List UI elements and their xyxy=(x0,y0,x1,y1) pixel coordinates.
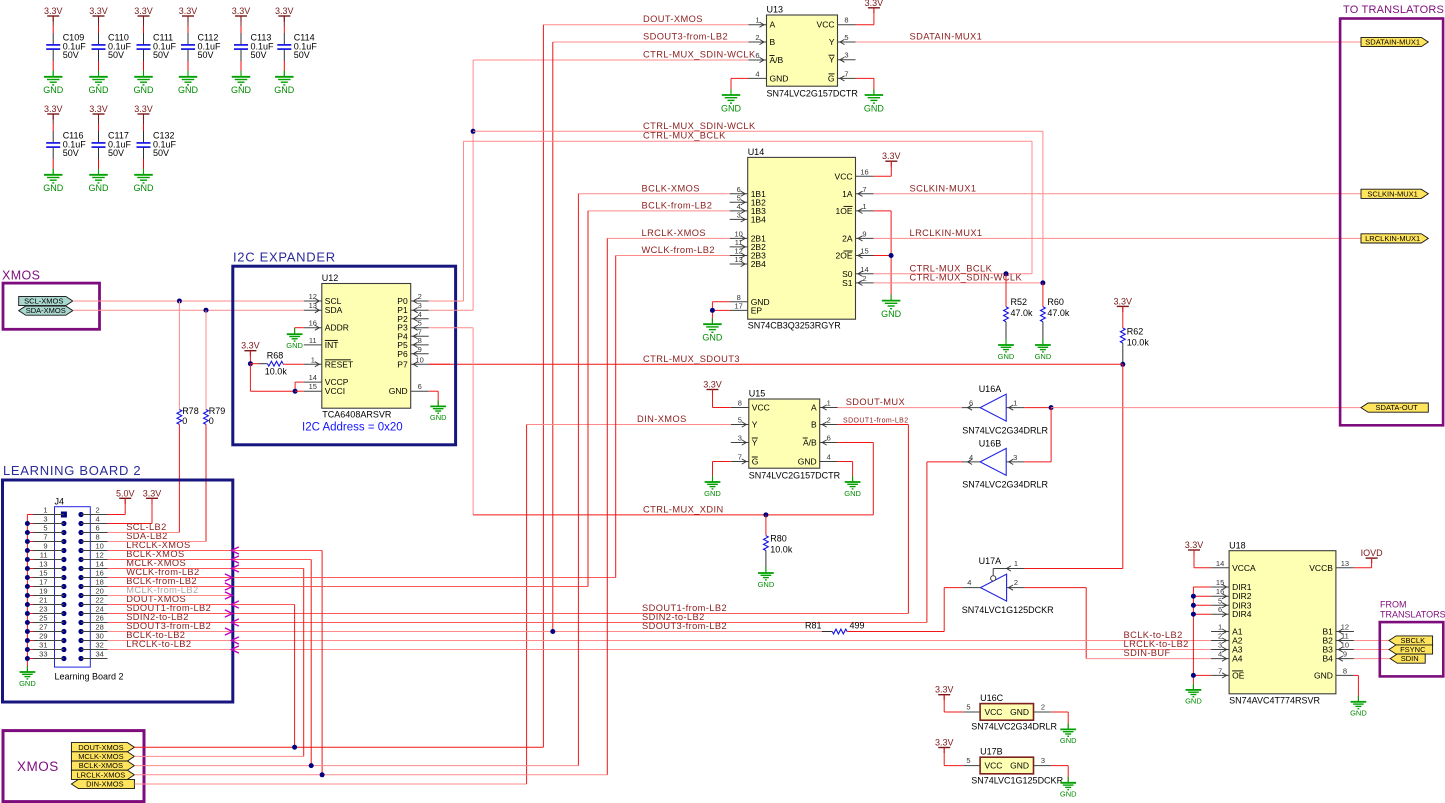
svg-text:3.3V: 3.3V xyxy=(935,738,954,748)
net label LRCLKIN-MUX1 xyxy=(910,228,983,238)
svg-text:3: 3 xyxy=(1218,641,1222,650)
op-amp U12 TCA6408ARSVR io expander xyxy=(304,273,429,420)
ground below U13 pin 4 xyxy=(721,89,742,113)
svg-text:4: 4 xyxy=(96,515,100,524)
ground below U14 enables xyxy=(881,295,902,319)
junction ground rail row 9 xyxy=(25,584,30,589)
port SCL-XMOS xyxy=(19,296,73,305)
svg-text:8: 8 xyxy=(1343,666,1347,675)
wire BCLK-XMOS from J4 xyxy=(108,560,312,766)
port BCLK-XMOS xyxy=(71,761,134,770)
svg-text:DOUT-XMOS: DOUT-XMOS xyxy=(643,14,703,24)
svg-text:CTRL-MUX_SDOUT3: CTRL-MUX_SDOUT3 xyxy=(643,354,740,364)
wire SDATAIN-MUX1 from U13.Y to translator port xyxy=(856,41,1362,43)
ground below U17B xyxy=(1060,777,1077,799)
wire U18.B4 to SDIN xyxy=(1354,658,1390,660)
capacitor C110 with 3.3V supply and ground xyxy=(89,6,132,95)
port FSYNC xyxy=(1389,645,1433,654)
wire SCLKIN-MUX1 from U14.1A xyxy=(874,193,1362,195)
net label DOUT-XMOS (LB2) xyxy=(126,594,186,604)
resistor R62 10.0k xyxy=(1120,306,1149,364)
svg-text:U13: U13 xyxy=(767,5,784,15)
svg-text:LEARNING BOARD 2: LEARNING BOARD 2 xyxy=(3,463,141,478)
wire BCLK-XMOS flag row xyxy=(134,194,578,766)
resistor R79 0 ohm xyxy=(204,310,226,541)
svg-text:G: G xyxy=(828,73,835,83)
junction DIR rail 605.3 xyxy=(1191,603,1196,608)
svg-text:GND: GND xyxy=(89,183,110,193)
net label CTRL-MUX_SDIN-WCLK (U13) xyxy=(643,50,756,60)
junction ground rail row 13 xyxy=(25,620,30,625)
svg-text:S1: S1 xyxy=(842,278,853,288)
svg-text:A4: A4 xyxy=(1232,654,1243,664)
svg-text:2: 2 xyxy=(862,274,866,283)
junction R62 / CTRL-MUX_SDOUT3 xyxy=(1120,362,1125,367)
svg-text:5: 5 xyxy=(43,524,47,533)
svg-text:3.3V: 3.3V xyxy=(1185,540,1204,550)
net label CTRL-MUX_BCLK (row) xyxy=(643,131,726,141)
wire SDOUT1-from-LB2 row xyxy=(108,613,909,615)
svg-text:6: 6 xyxy=(418,382,422,391)
svg-text:3.3V: 3.3V xyxy=(143,488,162,498)
svg-text:EP: EP xyxy=(751,305,763,315)
svg-text:R79: R79 xyxy=(209,406,226,416)
net label SDA-LB2 (LB2) xyxy=(126,531,168,541)
connector J4 Learning Board 2 xyxy=(27,496,123,681)
svg-text:15: 15 xyxy=(860,247,868,256)
svg-text:1A: 1A xyxy=(842,189,853,199)
svg-text:15: 15 xyxy=(39,569,47,578)
svg-text:6: 6 xyxy=(1218,605,1222,614)
net label CTRL-MUX_SDIN-WCLK (S1) xyxy=(910,272,1023,282)
svg-text:3: 3 xyxy=(738,434,742,443)
svg-text:SDOUT3-from-LB2: SDOUT3-from-LB2 xyxy=(642,621,727,631)
capacitor C112 with 3.3V supply and ground xyxy=(178,6,221,95)
svg-text:2: 2 xyxy=(755,33,759,42)
svg-text:2B4: 2B4 xyxy=(751,259,766,269)
op-amp U15 SN74LVC2G157DCTR 2:1 mux xyxy=(731,389,841,481)
svg-text:FROM: FROM xyxy=(1380,600,1407,610)
svg-text:5: 5 xyxy=(966,703,970,712)
net label BCLK-XMOS (U14) xyxy=(642,183,700,193)
off-sheet chevron row 559.5 xyxy=(231,556,239,563)
net label BCLK-from-LB2 (LB2) xyxy=(126,576,197,586)
wire SDATA-OUT row xyxy=(1051,407,1361,409)
svg-text:3.3V: 3.3V xyxy=(179,6,198,16)
net label DOUT-XMOS (U13) xyxy=(643,14,703,24)
svg-text:XMOS: XMOS xyxy=(17,759,59,774)
svg-text:14: 14 xyxy=(96,560,104,569)
svg-text:14: 14 xyxy=(860,265,868,274)
wire SCL-XMOS to U12.SCL xyxy=(73,300,304,302)
svg-text:R80: R80 xyxy=(770,534,787,544)
svg-text:OE: OE xyxy=(1232,670,1245,680)
svg-text:CTRL-MUX_XDIN: CTRL-MUX_XDIN xyxy=(643,504,724,514)
net label LRCLK-to-LB2 (LB2) xyxy=(126,639,191,649)
wire U12.P1 to CTRL-MUX_SDIN-WCLK xyxy=(429,309,473,311)
svg-text:5: 5 xyxy=(738,416,742,425)
svg-text:20: 20 xyxy=(96,587,104,596)
svg-text:SDOUT-MUX: SDOUT-MUX xyxy=(846,397,905,407)
net label SDIN-BUF xyxy=(1124,648,1171,658)
svg-text:J4: J4 xyxy=(55,496,65,506)
off-sheet chevron row 550.5 xyxy=(231,547,239,554)
FROM TRANSLATORS sheet box xyxy=(1380,600,1445,677)
port SDIN xyxy=(1390,654,1425,663)
svg-text:17: 17 xyxy=(735,301,743,310)
svg-text:SN74LVC1G125DCKR: SN74LVC1G125DCKR xyxy=(971,775,1063,785)
svg-text:GND: GND xyxy=(43,85,64,95)
wire U12 VCCP elbow xyxy=(295,382,304,391)
svg-text:A/B: A/B xyxy=(803,438,817,448)
svg-text:50V: 50V xyxy=(153,148,169,158)
svg-text:GND: GND xyxy=(274,85,295,95)
svg-text:10: 10 xyxy=(96,542,104,551)
wire CTRL-MUX_BCLK vertical right xyxy=(1031,141,1033,274)
svg-text:10: 10 xyxy=(1341,641,1349,650)
off-sheet chevron row 595.5 xyxy=(225,592,233,599)
junction ground rail row 15 xyxy=(25,638,30,643)
svg-text:SDOUT3-from-LB2: SDOUT3-from-LB2 xyxy=(643,32,728,42)
svg-text:SN74CB3Q3253RGYR: SN74CB3Q3253RGYR xyxy=(748,321,842,331)
svg-text:SBCLK: SBCLK xyxy=(1400,636,1425,645)
svg-text:24: 24 xyxy=(96,605,104,614)
net label SCLKIN-MUX1 xyxy=(910,183,977,193)
svg-text:P6: P6 xyxy=(397,349,408,359)
svg-text:R52: R52 xyxy=(1011,297,1028,307)
net label SDOUT1-from-LB2 small xyxy=(843,417,909,424)
svg-text:28: 28 xyxy=(96,623,104,632)
svg-text:TCA6408ARSVR: TCA6408ARSVR xyxy=(322,409,392,419)
wire CTRL-MUX_SDOUT3 row xyxy=(429,363,1123,365)
svg-text:4: 4 xyxy=(755,69,759,78)
svg-text:GND: GND xyxy=(286,341,303,350)
svg-text:GND: GND xyxy=(998,352,1015,361)
svg-text:U14: U14 xyxy=(748,147,765,157)
svg-text:4: 4 xyxy=(827,453,831,462)
net label LRCLK-to-LB2 (right) xyxy=(1124,639,1189,649)
svg-text:26: 26 xyxy=(96,614,104,623)
wire U16C GND xyxy=(1051,712,1068,729)
svg-text:VCCI: VCCI xyxy=(325,386,345,396)
svg-text:B4: B4 xyxy=(1322,654,1333,664)
svg-text:3.3V: 3.3V xyxy=(44,104,63,114)
junction U14 2OE xyxy=(889,253,894,258)
svg-text:GND: GND xyxy=(134,183,155,193)
svg-text:9: 9 xyxy=(43,542,47,551)
ground below J4 rail xyxy=(19,666,36,688)
svg-text:3.3V: 3.3V xyxy=(89,6,108,16)
ground below U18 pin8 xyxy=(1350,696,1367,718)
svg-text:7: 7 xyxy=(862,185,866,194)
wire U18 DIR tie-down rail xyxy=(1193,587,1211,690)
op-amp U17B power cell SN74LVC1G125DCKR xyxy=(963,747,1063,786)
3.3V supply for U18 VCCA xyxy=(1185,540,1211,568)
svg-text:33: 33 xyxy=(39,650,47,659)
port DOUT-XMOS xyxy=(71,743,134,752)
svg-text:2: 2 xyxy=(1218,632,1222,641)
off-sheet chevron row 568.5 xyxy=(231,565,239,572)
svg-text:B: B xyxy=(770,37,776,47)
resistor R68 10.0k xyxy=(250,351,303,377)
svg-text:GND: GND xyxy=(1010,707,1029,717)
svg-text:DIN-XMOS: DIN-XMOS xyxy=(637,414,687,424)
svg-text:GND: GND xyxy=(231,85,252,95)
svg-text:Y: Y xyxy=(752,420,758,430)
wire CTRL-MUX_XDIN up to U15.A/B xyxy=(838,443,874,515)
svg-text:1B4: 1B4 xyxy=(751,214,766,224)
wire U16A.1 to SDATA-OUT xyxy=(1024,407,1051,409)
svg-text:19: 19 xyxy=(39,587,47,596)
wire DOUT-XMOS into U13.A xyxy=(543,24,748,26)
svg-text:U16C: U16C xyxy=(980,693,1004,703)
LEARNING BOARD 2 sheet box xyxy=(3,463,233,702)
junction ground rail row 3 xyxy=(25,530,30,535)
svg-text:SCLKIN-MUX1: SCLKIN-MUX1 xyxy=(910,183,977,193)
wire MCLK-from-LB2 stub xyxy=(108,595,233,597)
op-amp U13 SN74LVC2G157DCTR 2:1 mux xyxy=(749,5,859,99)
svg-text:SDOUT1-from-LB2: SDOUT1-from-LB2 xyxy=(843,417,909,424)
svg-text:1: 1 xyxy=(311,355,315,364)
junction ground rail row 8 xyxy=(25,575,30,580)
svg-text:32: 32 xyxy=(96,641,104,650)
svg-text:14: 14 xyxy=(1216,559,1224,568)
svg-text:BCLK-from-LB2: BCLK-from-LB2 xyxy=(642,200,713,210)
off-sheet chevron row 640.5 xyxy=(231,637,239,644)
port SBCLK xyxy=(1389,636,1433,645)
svg-text:3.3V: 3.3V xyxy=(703,380,722,390)
svg-text:50V: 50V xyxy=(251,50,267,60)
svg-text:3.3V: 3.3V xyxy=(935,685,954,695)
svg-text:SDATA-OUT: SDATA-OUT xyxy=(1376,403,1419,412)
junction ground rail row 17 xyxy=(25,656,30,661)
svg-text:12: 12 xyxy=(96,551,104,560)
net label LRCLK-XMOS (U14) xyxy=(642,228,706,238)
port LRCLKIN-MUX1 xyxy=(1361,234,1428,243)
svg-text:2: 2 xyxy=(96,506,100,515)
svg-text:3.3V: 3.3V xyxy=(865,0,884,8)
svg-text:U18: U18 xyxy=(1229,540,1246,550)
svg-text:1: 1 xyxy=(1014,559,1018,568)
junction R60 on S1 net xyxy=(1040,280,1045,285)
svg-text:2: 2 xyxy=(1014,578,1018,587)
svg-text:U12: U12 xyxy=(322,273,339,283)
port MCLK-XMOS xyxy=(71,752,134,761)
svg-text:SDIN: SDIN xyxy=(1401,654,1419,663)
svg-text:A: A xyxy=(811,403,817,413)
svg-text:10.0k: 10.0k xyxy=(770,544,793,554)
svg-text:CTRL-MUX_BCLK: CTRL-MUX_BCLK xyxy=(643,131,726,141)
net label SDOUT1-from-LB2 (LB2) xyxy=(126,603,211,613)
svg-text:0: 0 xyxy=(209,416,214,426)
wire SDOUT3-from-LB2 row to R81 xyxy=(108,631,822,633)
wire MCLK-XMOS flag row xyxy=(134,755,303,757)
svg-text:30: 30 xyxy=(96,632,104,641)
wire 3.3V down to VCCI row xyxy=(250,364,295,392)
svg-text:GND: GND xyxy=(134,85,155,95)
svg-text:11: 11 xyxy=(40,551,48,560)
wire BCLK-from-LB2 from J4 xyxy=(108,211,589,587)
port DIN-XMOS xyxy=(71,779,134,788)
svg-text:3: 3 xyxy=(43,515,47,524)
resistor R81 499 xyxy=(805,621,944,634)
net label SCL-LB2 (LB2) xyxy=(126,522,167,532)
wire SDA-LB2 xyxy=(108,541,207,543)
wire U16B.4 to SDIN2-to-LB2 xyxy=(927,462,963,623)
port SDA-XMOS xyxy=(19,306,73,315)
wire U12.P0 to CTRL-MUX_BCLK xyxy=(429,300,464,302)
svg-text:3: 3 xyxy=(1041,756,1045,765)
svg-text:12: 12 xyxy=(309,292,317,301)
svg-text:7: 7 xyxy=(43,533,47,542)
svg-text:12: 12 xyxy=(1341,623,1349,632)
off-sheet chevron row 622.5 xyxy=(231,619,239,626)
3.3V supply for U17B xyxy=(935,738,963,766)
svg-text:3.3V: 3.3V xyxy=(232,6,251,16)
svg-text:11: 11 xyxy=(1341,632,1349,641)
junction LRCLK-XMOS xyxy=(320,772,325,777)
junction ground rail row 4 xyxy=(25,539,30,544)
wire CTRL-MUX_SDIN-WCLK into U13.A/B xyxy=(473,59,748,61)
svg-text:GND: GND xyxy=(844,489,861,498)
svg-text:31: 31 xyxy=(39,641,47,650)
3.3V supply for J4 pin4 xyxy=(108,488,162,523)
svg-text:10.0k: 10.0k xyxy=(1127,337,1150,347)
junction ground rail row 10 xyxy=(25,593,30,598)
svg-text:GND: GND xyxy=(89,85,110,95)
svg-text:VCCB: VCCB xyxy=(1309,563,1333,573)
svg-text:15: 15 xyxy=(309,382,317,391)
svg-text:GND: GND xyxy=(758,580,775,589)
svg-text:SDATAIN-MUX1: SDATAIN-MUX1 xyxy=(1365,38,1420,47)
svg-text:SN74LVC2G34DRLR: SN74LVC2G34DRLR xyxy=(971,722,1057,732)
svg-text:6: 6 xyxy=(755,51,759,60)
net label BCLK-to-LB2 (LB2) xyxy=(126,630,185,640)
svg-text:3.3V: 3.3V xyxy=(275,6,294,16)
svg-text:50V: 50V xyxy=(63,148,79,158)
net label SDOUT3-from-LB2 (mid) xyxy=(642,621,727,631)
svg-text:SN74LVC2G157DCTR: SN74LVC2G157DCTR xyxy=(767,89,859,99)
resistor R80 10.0k xyxy=(764,515,793,573)
svg-text:LRCLKIN-MUX1: LRCLKIN-MUX1 xyxy=(910,228,983,238)
svg-text:8: 8 xyxy=(738,399,742,408)
junction DIR rail 596.2 xyxy=(1191,594,1196,599)
op-amp U18 SN74AVC4T774RSVR level translator xyxy=(1211,540,1354,705)
svg-text:14: 14 xyxy=(309,373,317,382)
svg-text:3.3V: 3.3V xyxy=(882,151,901,161)
resistor R60 47.0k xyxy=(1041,283,1070,345)
wire MCLK-XMOS from J4 xyxy=(108,569,304,757)
net label WCLK-from-LB2 (LB2) xyxy=(126,567,199,577)
svg-text:LRCLKIN-MUX1: LRCLKIN-MUX1 xyxy=(1365,234,1420,243)
svg-text:INT: INT xyxy=(325,340,339,350)
svg-text:27: 27 xyxy=(39,623,47,632)
svg-text:CTRL-MUX_SDIN-WCLK: CTRL-MUX_SDIN-WCLK xyxy=(643,121,756,131)
wire LRCLK-XMOS flag row xyxy=(134,238,607,774)
svg-text:U17A: U17A xyxy=(979,556,1002,566)
svg-text:25: 25 xyxy=(39,614,47,623)
svg-text:G: G xyxy=(752,457,759,467)
wire DIN-XMOS flag row xyxy=(134,783,526,785)
svg-text:SN74LVC1G125DCKR: SN74LVC1G125DCKR xyxy=(962,605,1054,615)
junction 3.3V/R68 xyxy=(248,361,253,366)
svg-text:VCC: VCC xyxy=(835,171,853,181)
svg-text:50V: 50V xyxy=(153,50,169,60)
svg-text:SDA-XMOS: SDA-XMOS xyxy=(26,306,66,315)
wire U15 G to ground xyxy=(713,462,731,483)
wire SDIN-BUF row xyxy=(1086,658,1211,660)
svg-text:GND: GND xyxy=(770,73,789,83)
junction ground rail row 14 xyxy=(25,629,30,634)
svg-text:1: 1 xyxy=(1013,399,1017,408)
svg-text:GND: GND xyxy=(19,679,36,688)
wire U18 GND pin8 xyxy=(1354,675,1359,701)
svg-text:3: 3 xyxy=(1013,453,1017,462)
wire DOUT-XMOS from J4 xyxy=(108,605,295,748)
wire CTRL-MUX_BCLK vertical from U12.P0 xyxy=(463,141,465,301)
op-amp U16C power cell SN74LVC2G34DRLR xyxy=(963,693,1057,732)
svg-text:4: 4 xyxy=(967,578,971,587)
svg-text:SN74LVC2G157DCTR: SN74LVC2G157DCTR xyxy=(749,471,841,481)
svg-text:8: 8 xyxy=(418,336,422,345)
svg-text:9: 9 xyxy=(862,229,866,238)
capacitor C117 with 3.3V supply and ground xyxy=(89,104,132,193)
junction R80 xyxy=(763,512,768,517)
net label SDOUT-MUX xyxy=(846,397,905,407)
svg-text:2A: 2A xyxy=(842,233,853,243)
junction ground rail row 2 xyxy=(25,521,30,526)
svg-text:29: 29 xyxy=(39,632,47,641)
wire U14 1OE/2OE enable to ground xyxy=(874,211,892,301)
XMOS sheet symbol (bottom) xyxy=(3,731,144,802)
capacitor C116 with 3.3V supply and ground xyxy=(43,104,86,193)
svg-text:BCLK-XMOS: BCLK-XMOS xyxy=(79,761,123,770)
svg-text:50V: 50V xyxy=(294,50,310,60)
wire SDOUT1-from-LB2 to U15.B xyxy=(838,425,909,614)
svg-text:7: 7 xyxy=(738,453,742,462)
capacitor C113 with 3.3V supply and ground xyxy=(231,6,274,95)
off-sheet chevron row 586.5 xyxy=(225,583,233,590)
junction U16A output xyxy=(1049,405,1054,410)
wire WCLK-from-LB2 from J4 xyxy=(108,256,616,578)
wire CTRL-MUX_BCLK from U14.S0 xyxy=(874,273,1033,275)
capacitor C114 with 3.3V supply and ground xyxy=(274,6,317,95)
wire SDA-XMOS to U12.SDA xyxy=(73,309,304,311)
3.3V supply for U16C xyxy=(935,685,963,712)
svg-text:7: 7 xyxy=(844,69,848,78)
text I2C Address = 0x20 xyxy=(302,422,403,434)
svg-text:U17B: U17B xyxy=(980,747,1003,757)
svg-text:22: 22 xyxy=(96,596,104,605)
svg-text:5: 5 xyxy=(844,33,848,42)
svg-text:9: 9 xyxy=(1343,650,1347,659)
ground below U12 ADDR xyxy=(286,328,303,350)
svg-text:LRCLK-XMOS: LRCLK-XMOS xyxy=(77,770,126,779)
op-amp U14 SN74CB3Q3253RGYR dual 4:1 mux xyxy=(730,147,874,331)
off-sheet chevron row 613.5 xyxy=(225,610,233,617)
ground below R52 xyxy=(998,339,1015,361)
svg-text:DIN-XMOS: DIN-XMOS xyxy=(86,780,124,789)
wire WCLK-from-LB2 into U14.2B3 xyxy=(616,255,730,257)
junction DOUT-XMOS xyxy=(292,745,297,750)
wire U13 G pin 7 xyxy=(856,78,874,95)
net label SDOUT1-from-LB2 (mid) xyxy=(642,603,727,613)
net label CTRL-MUX_SDOUT3 xyxy=(643,354,740,364)
svg-text:SDA: SDA xyxy=(325,305,343,315)
resistor R78 0 ohm xyxy=(177,301,199,533)
svg-text:1: 1 xyxy=(755,16,759,25)
wire SCL-LB2 xyxy=(108,532,180,534)
